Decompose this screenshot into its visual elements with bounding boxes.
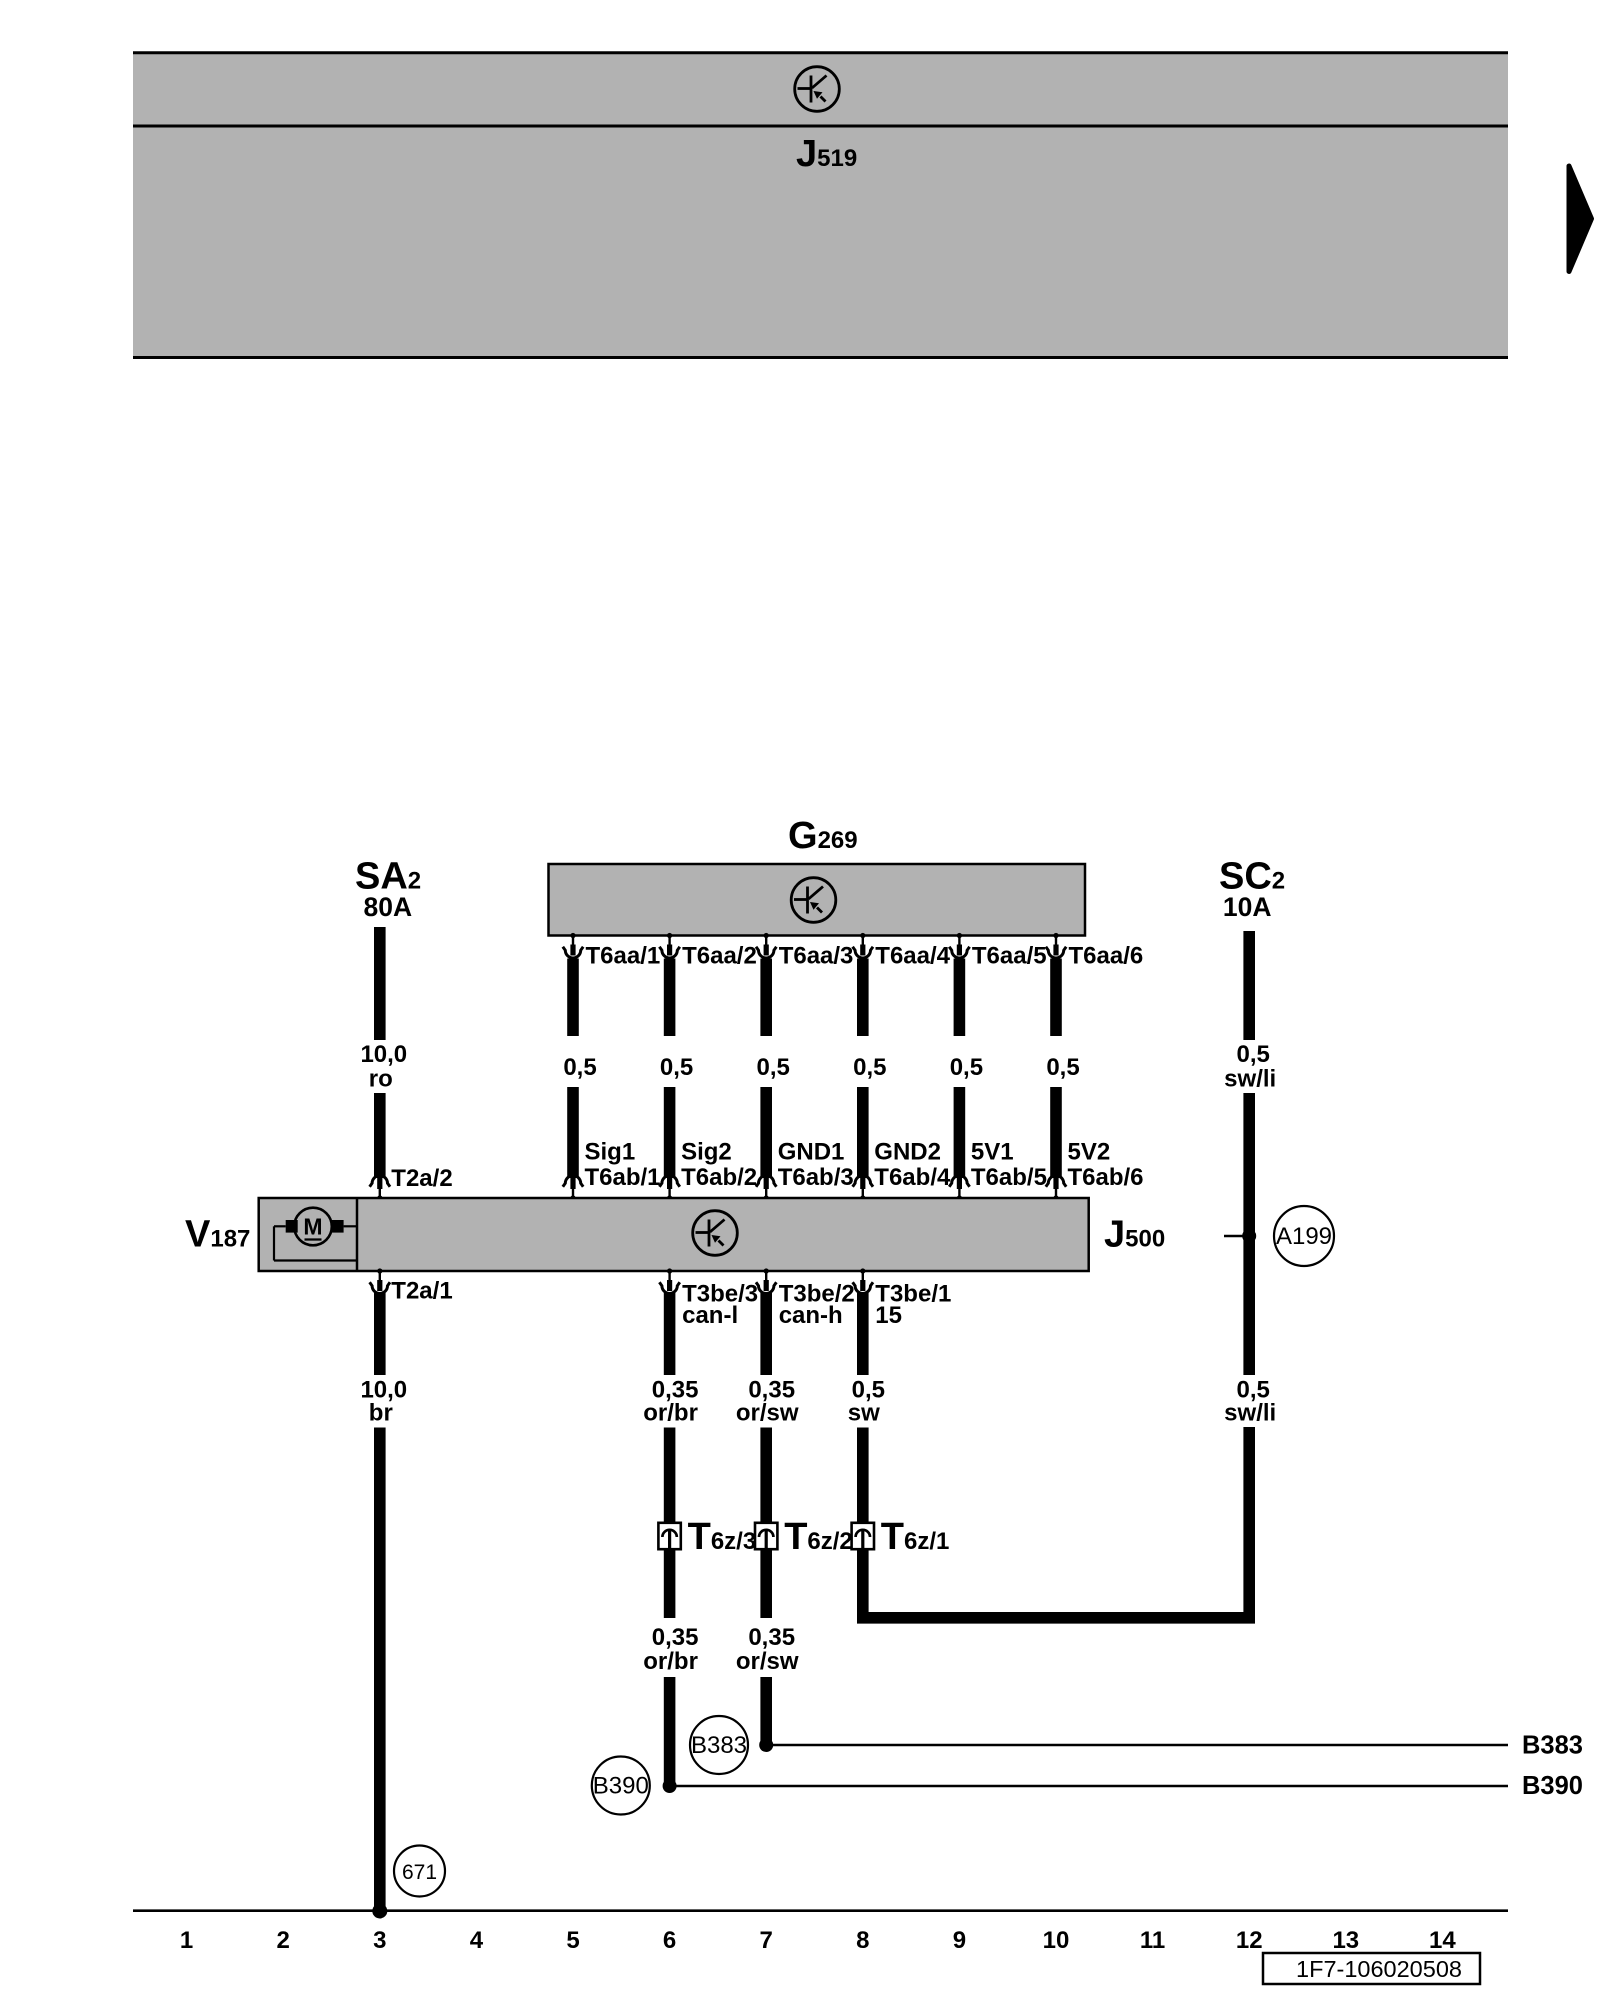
svg-text:ro: ro [369,1066,393,1093]
svg-text:5V1: 5V1 [971,1138,1014,1165]
svg-text:0,5: 0,5 [1046,1054,1079,1081]
svg-text:7: 7 [760,1927,773,1954]
svg-text:A199: A199 [1276,1223,1332,1250]
svg-text:T2a/2: T2a/2 [391,1165,452,1192]
svg-text:0,5: 0,5 [757,1054,790,1081]
svg-text:15: 15 [875,1302,902,1329]
svg-text:T2a/1: T2a/1 [391,1278,452,1305]
svg-text:671: 671 [402,1861,437,1884]
svg-text:sw/li: sw/li [1224,1066,1276,1093]
svg-text:1: 1 [180,1927,193,1954]
svg-text:11: 11 [1140,1927,1165,1954]
svg-text:GND2: GND2 [874,1138,941,1165]
svg-text:T6aa/4: T6aa/4 [875,943,950,970]
svg-text:9: 9 [953,1927,966,1954]
svg-text:B390: B390 [593,1773,649,1800]
svg-text:T6ab/6: T6ab/6 [1068,1164,1144,1191]
svg-text:0,35: 0,35 [652,1624,699,1651]
svg-text:GND1: GND1 [778,1138,845,1165]
svg-text:B390: B390 [1522,1772,1583,1800]
svg-text:T6aa/5: T6aa/5 [972,943,1047,970]
svg-text:B383: B383 [691,1732,747,1759]
svg-text:or/br: or/br [643,1648,698,1675]
svg-text:T6aa/6: T6aa/6 [1069,943,1144,970]
svg-text:can-h: can-h [779,1302,843,1329]
svg-text:T6ab/1: T6ab/1 [585,1164,661,1191]
svg-text:T6aa/2: T6aa/2 [682,943,757,970]
svg-text:B383: B383 [1522,1732,1583,1760]
svg-text:0,5: 0,5 [563,1054,596,1081]
svg-text:br: br [369,1400,393,1427]
svg-text:T6ab/4: T6ab/4 [874,1164,951,1191]
svg-text:3: 3 [373,1927,386,1954]
svg-text:T6ab/3: T6ab/3 [778,1164,854,1191]
svg-text:13: 13 [1332,1927,1359,1954]
svg-text:0,35: 0,35 [748,1624,795,1651]
svg-text:T6aa/1: T6aa/1 [586,943,661,970]
svg-text:T6ab/2: T6ab/2 [681,1164,757,1191]
svg-text:Sig1: Sig1 [585,1138,636,1165]
svg-text:Sig2: Sig2 [681,1138,732,1165]
svg-text:5V2: 5V2 [1068,1138,1111,1165]
svg-text:0,5: 0,5 [1237,1041,1270,1068]
svg-text:0,5: 0,5 [660,1054,693,1081]
svg-text:4: 4 [470,1927,484,1954]
svg-text:10,0: 10,0 [360,1041,407,1068]
svg-text:10A: 10A [1223,892,1272,922]
svg-text:T6ab/5: T6ab/5 [971,1164,1047,1191]
svg-text:2: 2 [277,1927,290,1954]
svg-text:80A: 80A [363,892,412,922]
svg-text:or/br: or/br [643,1400,698,1427]
svg-text:0,5: 0,5 [853,1054,886,1081]
svg-text:14: 14 [1429,1927,1456,1954]
svg-text:6: 6 [663,1927,676,1954]
svg-text:or/sw: or/sw [736,1648,799,1675]
svg-text:can-l: can-l [682,1302,738,1329]
svg-text:5: 5 [566,1927,579,1954]
svg-text:0,5: 0,5 [950,1054,983,1081]
svg-text:8: 8 [856,1927,869,1954]
svg-text:T6aa/3: T6aa/3 [779,943,854,970]
svg-text:1F7-106020508: 1F7-106020508 [1296,1956,1462,1982]
svg-text:sw: sw [848,1400,880,1427]
svg-text:or/sw: or/sw [736,1400,799,1427]
svg-text:sw/li: sw/li [1224,1400,1276,1427]
svg-text:10: 10 [1043,1927,1070,1954]
svg-text:M: M [303,1214,322,1240]
svg-text:12: 12 [1236,1927,1263,1954]
